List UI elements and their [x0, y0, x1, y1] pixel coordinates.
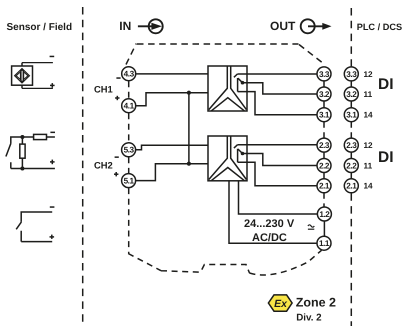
svg-text:2.1: 2.1 — [346, 182, 357, 191]
svg-text:11: 11 — [364, 161, 373, 170]
svg-text:4.3: 4.3 — [124, 70, 135, 79]
svg-text:Sensor / Field: Sensor / Field — [7, 22, 73, 33]
svg-text:CH1: CH1 — [94, 84, 113, 95]
svg-text:OUT: OUT — [270, 19, 296, 33]
svg-text:14: 14 — [364, 111, 374, 120]
svg-text:3.1: 3.1 — [346, 111, 357, 120]
svg-text:AC/DC: AC/DC — [252, 232, 287, 244]
svg-text:5.3: 5.3 — [124, 146, 135, 155]
svg-text:IN: IN — [119, 19, 131, 33]
svg-text:24...230 V: 24...230 V — [244, 218, 295, 230]
svg-text:DI: DI — [378, 149, 394, 166]
svg-text:4.1: 4.1 — [124, 102, 135, 111]
svg-text:Zone 2: Zone 2 — [296, 296, 336, 310]
svg-text:2.3: 2.3 — [346, 141, 357, 150]
svg-text:2.2: 2.2 — [346, 161, 357, 170]
svg-text:11: 11 — [364, 90, 373, 99]
svg-text:Ex: Ex — [274, 298, 288, 310]
svg-text:3.3: 3.3 — [319, 70, 330, 79]
svg-text:5.1: 5.1 — [124, 177, 135, 186]
svg-text:14: 14 — [364, 182, 374, 191]
svg-text:PLC / DCS: PLC / DCS — [357, 22, 402, 32]
svg-text:3.3: 3.3 — [346, 70, 357, 79]
svg-text:DI: DI — [378, 76, 394, 93]
svg-text:3.2: 3.2 — [319, 90, 330, 99]
svg-text:2.2: 2.2 — [319, 161, 330, 170]
svg-text:3.1: 3.1 — [319, 111, 330, 120]
svg-text:CH2: CH2 — [94, 160, 113, 171]
svg-text:2.1: 2.1 — [319, 182, 330, 191]
svg-text:Div. 2: Div. 2 — [296, 313, 322, 324]
svg-text:2.3: 2.3 — [319, 141, 330, 150]
svg-text:3.2: 3.2 — [346, 90, 357, 99]
svg-text:12: 12 — [364, 141, 374, 150]
svg-text:1.2: 1.2 — [319, 210, 330, 219]
svg-text:12: 12 — [364, 70, 374, 79]
svg-text:1.1: 1.1 — [319, 239, 330, 248]
